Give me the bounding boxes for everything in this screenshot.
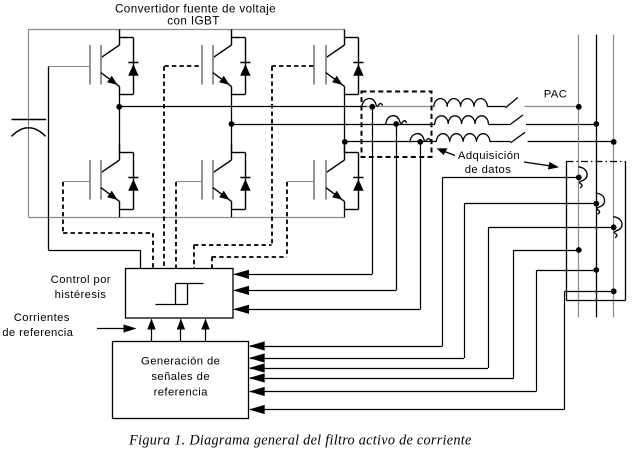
- arrowhead into generation input 3: [249, 363, 265, 372]
- switch SW2 blade (phase B): [510, 115, 524, 125]
- node: PAC connection phase 2: [593, 121, 599, 127]
- wire: tap 3 to generation input: [250, 409, 564, 411]
- wire: grid phase 3 vertical bus: [613, 35, 615, 318]
- wire: tap 1 drop: [513, 250, 515, 378]
- wire: tap 2 drop: [536, 270, 538, 392]
- wire: leg A midpoint vertical: [119, 94, 121, 153]
- node A (phase A junction): [116, 104, 122, 110]
- node: grid phase 1 voltage tap: [576, 247, 582, 253]
- wire: CT5 drop: [464, 204, 466, 358]
- wire: tap 3 lead left: [564, 291, 613, 293]
- wire: leg C midpoint vertical: [344, 94, 346, 153]
- transistor Q6 (IGBT, leg C bottom) with antiparallel diode: [287, 144, 364, 209]
- current sensor CT1 on phase A: [362, 98, 383, 107]
- reference generation box U2: [113, 342, 249, 419]
- wire: phase A to switch: [487, 106, 505, 108]
- svg-text:con IGBT: con IGBT: [167, 15, 220, 28]
- wire: gate drive Q5 (dashed) lead: [272, 65, 315, 67]
- wire: gate drive Q5 horizontal: [194, 244, 272, 246]
- svg-text:señales de: señales de: [151, 371, 210, 383]
- capacitor C1 curved plate: [12, 128, 46, 137]
- wire: gate drive Q4 (dashed) vertical: [175, 182, 177, 268]
- wire: gate drive Q3 vertical: [163, 67, 165, 269]
- wire: gate drive Q6 horizontal: [212, 256, 287, 258]
- wire: reference currents pointer shaft: [97, 328, 131, 330]
- svg-text:de referencia: de referencia: [2, 327, 73, 339]
- wire: phase B line to inductor: [232, 124, 436, 126]
- arrowhead into hysteresis input 1: [233, 270, 249, 279]
- wire: CT1 signal drop: [372, 107, 374, 274]
- arrowhead up into control box 3: [201, 319, 209, 330]
- wire: CT4 to generation input: [250, 346, 442, 348]
- wire: CT4 lead left: [443, 177, 579, 179]
- wire: grid phase 1 vertical bus: [578, 35, 580, 318]
- inductor L3 (phase C): [436, 134, 490, 142]
- wire: grid phase 2 vertical bus: [596, 35, 598, 318]
- current sensor CT6 on grid phase 3: [613, 217, 622, 238]
- wire: gate drive Q5 into control box: [193, 245, 195, 268]
- sensor box right edge: [625, 161, 627, 300]
- wire: gate drive Q2 horizontal: [63, 232, 153, 234]
- wire: gate drive Q6 into control box: [211, 257, 213, 269]
- svg-text:Control por: Control por: [51, 274, 111, 286]
- wire: gate drive Q5 vertical: [271, 67, 273, 245]
- wire: CT5 lead left: [464, 203, 596, 205]
- sensor box (grid-side acquisition): top edge dash-dot: [567, 161, 626, 163]
- wire: CT4 drop: [442, 177, 444, 346]
- wire: gate drive Q2 into control box: [152, 233, 154, 268]
- wire: CT3 signal drop: [420, 142, 422, 309]
- arrowhead: reference currents pointer: [124, 324, 137, 332]
- arrowhead up into control box 1: [147, 319, 155, 330]
- wire: CT6 to generation input: [250, 368, 488, 370]
- svg-text:referencia: referencia: [154, 387, 209, 399]
- wire: gate drive Q2 (dashed) vertical: [62, 182, 64, 233]
- node: PAC connection phase 3: [611, 139, 617, 145]
- node: PAC connection phase 1: [576, 104, 582, 110]
- arrowhead: pointer to left sensor box: [437, 148, 448, 155]
- transistor Q3 (IGBT, leg B top) with antiparallel diode: [202, 29, 251, 94]
- svg-text:Figura 1. Diagrama general del: Figura 1. Diagrama general del filtro ac…: [128, 433, 471, 449]
- wire: leg A emitter to bottom rail: [119, 210, 121, 218]
- transistor Q5 (IGBT, leg C top) with antiparallel diode: [314, 29, 364, 94]
- wire: phase A switch to PAC bus: [525, 106, 579, 108]
- capacitor C1 (DC link) top plate: [12, 119, 47, 121]
- wire: tap 2 to generation input: [250, 391, 536, 393]
- arrowhead into generation input 5: [249, 387, 265, 396]
- svg-text:Convertidor fuente de voltaje: Convertidor fuente de voltaje: [115, 2, 276, 15]
- wire: phase C to switch: [490, 141, 511, 143]
- wire: pointer to right sensor box: [524, 162, 552, 166]
- wire: CT2 signal to hysteresis input: [235, 290, 397, 292]
- arrowhead into generation input 1: [249, 341, 265, 350]
- arrowhead into generation input 4: [249, 373, 265, 382]
- wire: phase B to switch: [488, 124, 509, 126]
- wire: gate drive Q6 (dashed) vertical: [286, 182, 288, 257]
- inductor L2 (phase B): [435, 116, 489, 124]
- wire: reference signal 3 up: [205, 320, 207, 342]
- inductor L1 (phase A): [434, 99, 488, 107]
- wire: gate drive Q1 (solid) vertical: [48, 67, 50, 251]
- wire: phase B switch to PAC bus: [526, 124, 596, 126]
- node: grid phase 2 voltage tap: [593, 267, 599, 273]
- sensor box left edge: [566, 161, 568, 300]
- node C (phase C junction): [342, 139, 348, 145]
- wire: DC bus bottom rail: [29, 217, 345, 219]
- hysteresis controller box U1: [126, 269, 234, 319]
- transistor Q1 (IGBT, leg A top) with antiparallel diode: [48, 29, 138, 94]
- switch SW1 blade (phase A): [506, 98, 518, 108]
- wire: phase A sensor to inductor: [367, 106, 435, 108]
- wire: gate drive Q3 (dashed) lead: [164, 65, 201, 67]
- wire: reference signal 2 up: [180, 320, 182, 342]
- wire: phase C line to inductor: [345, 141, 437, 143]
- wire: DC bus top rail: [29, 29, 345, 31]
- sensor box (filter current acquisition, dashed): [362, 92, 432, 158]
- node B (phase B junction): [229, 121, 235, 127]
- wire: phase C switch to PAC bus: [528, 141, 614, 143]
- wire: reference signal 1 up: [151, 320, 153, 342]
- sensor box bottom edge: [567, 300, 626, 302]
- wire: CT1 signal to hysteresis input: [235, 274, 373, 276]
- wire: CT6 drop: [488, 227, 490, 368]
- arrowhead into generation input 6: [249, 405, 265, 414]
- wire: gate drive Q1 horizontal: [48, 250, 140, 252]
- wire: leg C emitter to bottom rail: [344, 210, 346, 218]
- wire: tap 2 lead left: [536, 270, 596, 272]
- svg-text:de datos: de datos: [465, 164, 512, 176]
- wire: CT5 to generation input: [250, 358, 464, 360]
- svg-text:histéresis: histéresis: [55, 289, 107, 301]
- node: grid phase 3 voltage tap: [611, 288, 617, 294]
- arrowhead into generation input 2: [249, 353, 265, 362]
- transistor Q2 (IGBT, leg A bottom) with antiparallel diode: [63, 144, 139, 209]
- wire: CT6 lead left: [488, 227, 614, 229]
- arrowhead into hysteresis input 2: [233, 286, 249, 295]
- wire: pointer to left sensor box: [442, 151, 455, 156]
- wire: gate drive Q1 into control box: [140, 250, 142, 268]
- wire: DC bus left rail: [28, 29, 30, 217]
- switch SW3 blade (phase C): [511, 132, 526, 143]
- wire: phase A line to sensor: [119, 106, 366, 108]
- svg-text:Corrientes: Corrientes: [14, 312, 70, 324]
- transistor Q4 (IGBT, leg B bottom) with antiparallel diode: [176, 144, 250, 209]
- wire: leg B emitter to bottom rail: [231, 210, 233, 218]
- wire: tap 3 drop: [564, 291, 566, 409]
- svg-text:Adquisición: Adquisición: [458, 150, 520, 162]
- svg-text:Generación de: Generación de: [141, 356, 220, 368]
- wire: CT2 signal drop: [396, 124, 398, 290]
- wire: tap 1 to generation input: [250, 378, 514, 380]
- arrowhead up into control box 2: [177, 319, 185, 330]
- current sensor CT4 on grid phase 1: [578, 167, 587, 188]
- wire: CT3 signal to hysteresis input: [235, 309, 421, 311]
- hysteresis symbol inside U1: [156, 284, 204, 305]
- svg-text:PAC: PAC: [544, 89, 568, 101]
- current sensor CT5 on grid phase 2: [596, 193, 605, 214]
- current sensor CT3 on phase C: [410, 134, 431, 143]
- arrowhead into hysteresis input 3: [233, 305, 249, 314]
- arrowhead: pointer to right sensor box: [548, 162, 559, 170]
- wire: tap 1 lead left: [514, 250, 579, 252]
- current sensor CT2 on phase B: [386, 116, 407, 125]
- wire: leg B midpoint vertical: [231, 94, 233, 153]
